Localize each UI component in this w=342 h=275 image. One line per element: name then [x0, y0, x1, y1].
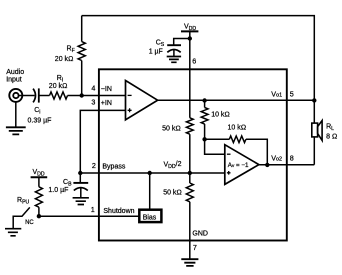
capacitor CS	[149, 39, 190, 57]
ground (CB)	[73, 198, 89, 205]
svg-text:2: 2	[92, 161, 96, 170]
svg-text:20 kΩ: 20 kΩ	[49, 83, 68, 90]
bias block	[139, 173, 161, 222]
svg-text:8: 8	[290, 153, 294, 162]
wire VDD pin 6	[189, 31, 191, 117]
svg-text:Bypass: Bypass	[102, 164, 125, 171]
node 50k divider	[188, 171, 192, 175]
svg-text:10 kΩ: 10 kΩ	[211, 112, 230, 119]
svg-text:+IN: +IN	[101, 100, 112, 107]
resistor 10k vertical	[201, 101, 230, 140]
resistor 50k lower	[163, 173, 193, 241]
node RF junction	[80, 93, 84, 97]
audio input jack	[6, 69, 24, 102]
node bias tap	[148, 171, 152, 175]
node CB	[78, 171, 82, 175]
wire input to cap	[19, 95, 35, 97]
ground (audio input)	[6, 102, 26, 135]
ground (switch)	[5, 229, 21, 236]
wire Shutdown (pin 1)	[39, 215, 140, 217]
svg-text:6: 6	[192, 56, 196, 65]
svg-text:Av = −1: Av = −1	[228, 162, 249, 169]
svg-text:7: 7	[193, 243, 197, 252]
wire Vo1 (pin 5)	[158, 99, 315, 101]
capacitor CB	[48, 173, 88, 197]
svg-text:Audio: Audio	[6, 69, 24, 76]
svg-text:3: 3	[91, 97, 95, 106]
svg-text:NC: NC	[25, 220, 34, 226]
wire Vo2 (pin 8)	[259, 164, 314, 166]
resistor 10k horizontal	[205, 125, 268, 165]
wire pin 7	[189, 241, 191, 260]
switch NC	[13, 207, 34, 228]
wire Bypass (pin 2)	[80, 172, 225, 174]
resistor RPU	[17, 177, 42, 216]
node Vo1/10k	[202, 98, 206, 102]
svg-text:4: 4	[91, 84, 95, 93]
IC box U1	[99, 69, 287, 240]
wire -IN (pin 4)	[68, 95, 126, 97]
svg-text:20 kΩ: 20 kΩ	[55, 56, 74, 63]
svg-text:GND: GND	[192, 230, 208, 237]
VDD supply left	[31, 169, 48, 178]
ground (CS)	[167, 57, 181, 63]
svg-text:1.0 µF: 1.0 µF	[48, 187, 68, 194]
svg-text:Shutdown: Shutdown	[103, 208, 134, 215]
node Vo2	[265, 163, 269, 167]
ground (pin 7)	[181, 259, 198, 266]
wire feedback top	[82, 16, 315, 124]
node shutdown	[37, 214, 41, 218]
svg-text:1 µF: 1 µF	[149, 48, 163, 55]
node Vo1/speaker	[312, 98, 316, 102]
resistor RF	[55, 16, 86, 96]
wire +IN (pin 3)	[80, 110, 125, 173]
op-amp U1A	[126, 81, 158, 120]
op-amp U1B	[225, 145, 259, 185]
svg-text:1: 1	[91, 205, 95, 214]
wire op-amp2 inverting input	[205, 139, 225, 154]
svg-text:50 kΩ: 50 kΩ	[163, 190, 182, 197]
VDD supply top	[181, 23, 198, 32]
node VDD/CS	[188, 36, 192, 40]
svg-text:0.39 µF: 0.39 µF	[28, 117, 52, 124]
capacitor Ci	[28, 88, 52, 124]
svg-text:−IN: −IN	[101, 86, 112, 93]
wire cap to RI	[39, 95, 50, 97]
resistor RI	[49, 75, 68, 99]
svg-text:50 kΩ: 50 kΩ	[162, 126, 181, 133]
svg-text:Bias: Bias	[143, 214, 157, 221]
svg-text:10 kΩ: 10 kΩ	[228, 125, 247, 132]
resistor 50k upper	[162, 118, 193, 173]
node 10k junction	[202, 137, 206, 141]
svg-text:5: 5	[290, 89, 294, 98]
speaker RL	[312, 121, 338, 165]
svg-text:Input: Input	[6, 76, 22, 83]
svg-text:8 Ω: 8 Ω	[326, 133, 337, 140]
